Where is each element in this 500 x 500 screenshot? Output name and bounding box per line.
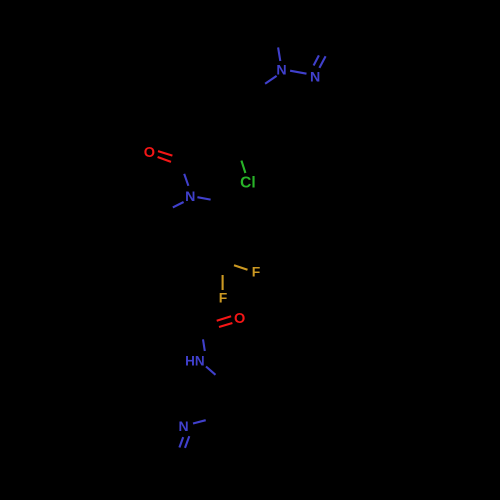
bond N1-CH3 methyl (blue half) bbox=[265, 76, 277, 84]
svg-text:HN: HN bbox=[185, 353, 205, 368]
svg-text:O: O bbox=[234, 311, 245, 327]
bond C-F2 (gold half) bbox=[222, 275, 224, 290]
bond C-F1 (gold half) bbox=[234, 265, 248, 270]
bond N2=C3 double (blue halves) bbox=[314, 55, 319, 65]
svg-text:N: N bbox=[179, 418, 189, 434]
svg-text:N: N bbox=[310, 70, 320, 86]
bond N-CH3 right (blue half) bbox=[197, 197, 210, 199]
bond C(=O)-N amide (blue half) bbox=[184, 174, 188, 186]
bond Npyridine-C2 (blue half) bbox=[193, 420, 206, 423]
svg-text:O: O bbox=[144, 145, 155, 161]
bond C-Cl (green half) bbox=[241, 161, 245, 173]
svg-text:N: N bbox=[185, 189, 195, 205]
bond Npyridine=C6 double (blue halves) bbox=[185, 436, 189, 448]
bond N1-N2 pyrazole (blue) bbox=[290, 71, 306, 74]
bond C=O lower amide (red halves, double) bbox=[217, 316, 231, 321]
bond N1-C5 pyrazole (blue half) bbox=[278, 47, 280, 61]
bond N-CH3 left (blue half) bbox=[173, 202, 184, 207]
svg-text:F: F bbox=[219, 290, 228, 306]
bond HN-C(=O) (blue half) bbox=[203, 339, 205, 351]
svg-text:N: N bbox=[276, 63, 286, 79]
svg-text:Cl: Cl bbox=[240, 174, 256, 191]
bond HN-CH2 (blue half) bbox=[206, 367, 216, 375]
bond C=O top amide (red halves, double) bbox=[158, 151, 172, 156]
svg-text:F: F bbox=[252, 263, 261, 279]
